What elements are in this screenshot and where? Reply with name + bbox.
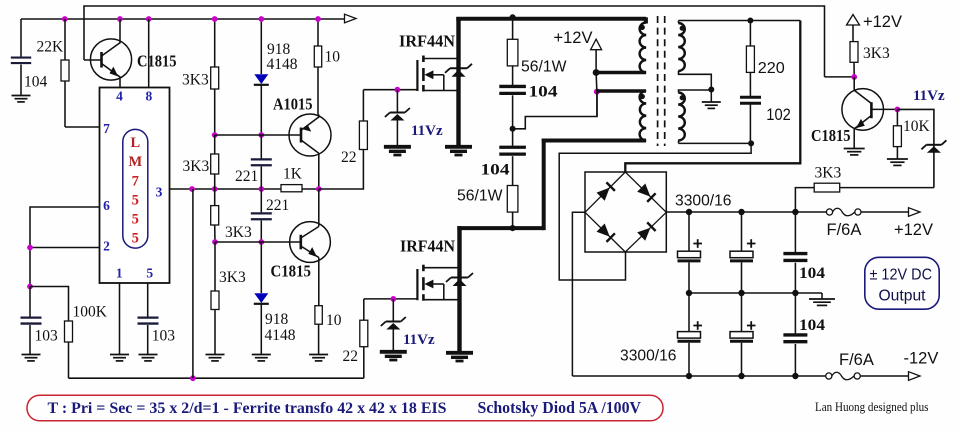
node secondary center tap <box>708 87 714 93</box>
label 22 no.1 <box>341 149 357 166</box>
transistor Q3 C1815 (driver) <box>290 189 331 306</box>
ground M1 source (thick) <box>445 147 472 155</box>
svg-text:4: 4 <box>116 89 123 104</box>
svg-text:3: 3 <box>156 185 163 200</box>
zener 11Vz no.2 (gate M2) <box>380 299 407 360</box>
power symbol +12V center tap <box>591 39 602 50</box>
resistor 3K3 no.2 <box>211 135 219 189</box>
transistor Q2 A1015 (PNP) <box>289 114 331 189</box>
wire center tap to top coil (thick) <box>596 71 646 75</box>
label 1K <box>283 166 303 183</box>
node driver junction <box>316 186 322 192</box>
svg-text:11Vz: 11Vz <box>403 332 435 348</box>
label 56/1W no.1 <box>521 59 567 76</box>
node RC snubber top <box>747 18 753 24</box>
capacitor 3300/16 no.2 <box>730 212 756 293</box>
svg-text:221: 221 <box>235 168 258 185</box>
node diode chain rail <box>258 16 264 22</box>
pin 8 label <box>146 89 153 104</box>
bridge diode upper-left <box>585 172 625 212</box>
wire bottom feedback rail (y=378) <box>69 377 364 379</box>
wire center tap to bottom coil (thick) <box>597 89 646 93</box>
svg-text:7: 7 <box>132 174 139 190</box>
svg-text:T : Pri = Sec = 35 x 2/d=1 - F: T : Pri = Sec = 35 x 2/d=1 - Ferrite tra… <box>48 400 447 417</box>
svg-text:IRF44N: IRF44N <box>400 237 456 256</box>
wire pin3 output (y=189) <box>170 188 282 190</box>
bridge diode lower-left <box>585 212 625 252</box>
svg-text:C1815: C1815 <box>271 262 312 281</box>
transistor Q1 C1815 (top-left) <box>84 19 132 88</box>
capacitor 103 (pin5) <box>138 283 159 361</box>
label C1815 Q3 <box>271 262 312 281</box>
svg-text:1: 1 <box>116 266 123 281</box>
svg-text:C1815: C1815 <box>137 52 177 71</box>
svg-text:3K3: 3K3 <box>225 224 252 241</box>
wire driver to gate M1 <box>319 150 364 190</box>
capacitor 221 no.1 <box>251 135 272 189</box>
diode 918/4148 no.2 <box>252 242 271 361</box>
node 10 res rail <box>315 16 321 22</box>
node base wire Q3 mid <box>258 239 264 245</box>
wire feedback rail (y=6) from C1815 Q1 base to right section <box>84 6 825 77</box>
wire 3K3mid to A1015 base <box>215 134 301 136</box>
svg-text:+12V: +12V <box>863 13 902 31</box>
resistor 1K <box>281 185 319 192</box>
wire -12V output rail <box>572 375 828 377</box>
svg-text:10: 10 <box>326 312 342 329</box>
label 103 pin5 <box>152 328 176 345</box>
label 11Vz no.3 <box>913 88 945 104</box>
node secondary AC2 junction <box>748 140 754 146</box>
transformer primary coil top <box>640 17 647 72</box>
phase dot secondary top <box>680 26 685 31</box>
wire +12V output rail <box>666 211 826 213</box>
output info box <box>865 257 939 309</box>
svg-text:M: M <box>128 154 142 170</box>
resistor 10 no.1 <box>314 19 321 115</box>
label +12V center tap <box>554 29 593 47</box>
wire output 0V rail <box>689 292 822 294</box>
svg-text:100K: 100K <box>73 304 108 321</box>
bridge rectifier box <box>585 172 666 252</box>
wire bottom rail to 22 no.2 <box>363 347 365 379</box>
label A1015 <box>273 95 313 114</box>
resistor 3K3 no.4 <box>206 242 225 361</box>
wire top rail +12V (y=19) with end arrow <box>21 14 356 23</box>
capacitor 3300/16 no.3 <box>678 293 703 376</box>
wire gate M1 <box>363 89 417 91</box>
node out+ cap2 <box>738 209 744 215</box>
wire secondary bottom terminal <box>679 141 752 144</box>
svg-text:221: 221 <box>266 197 289 214</box>
transformer primary coil bottom <box>640 91 647 141</box>
svg-text:4148: 4148 <box>267 56 298 73</box>
pin 2 label <box>103 239 110 254</box>
IC U1 inner stadium with LM7555 <box>123 129 148 248</box>
svg-text:F/6A: F/6A <box>839 351 874 369</box>
wire pin6 pin2 junction to left column <box>30 207 100 287</box>
node base wire Q3 left <box>212 239 218 245</box>
svg-text:5: 5 <box>132 231 139 247</box>
capacitor 104 snubber no.2 <box>499 129 526 186</box>
label 918 no.1 <box>267 41 291 58</box>
svg-text:103: 103 <box>35 328 59 345</box>
label 11Vz no.1 <box>411 123 443 139</box>
svg-text:C1815: C1815 <box>811 126 851 145</box>
wire base Q3 <box>215 241 301 243</box>
svg-text:3K3: 3K3 <box>863 45 890 62</box>
node out+ fb <box>792 209 798 215</box>
label 104 output no.1 <box>799 265 825 282</box>
node gate M1 zener <box>395 87 401 93</box>
label 3K3 no.1 <box>182 72 209 89</box>
label C1815 Q4 <box>811 126 851 145</box>
svg-text:8: 8 <box>146 89 153 104</box>
label 103 left <box>35 328 59 345</box>
resistor 10K <box>887 109 908 165</box>
svg-text:56/1W: 56/1W <box>457 188 503 205</box>
zener drain M1 <box>445 64 472 77</box>
label 3300/16 bottom <box>620 348 677 365</box>
node pin3 left <box>189 186 195 192</box>
node Q4 base <box>895 107 901 113</box>
wire drain rail M2 (thick) <box>457 139 646 352</box>
transformer core <box>658 16 665 146</box>
resistor 10 no.2 <box>309 306 328 361</box>
arrow -12V output <box>909 372 921 381</box>
resistor 56/1W no.1 <box>507 19 518 66</box>
bridge diode lower-right <box>625 212 666 252</box>
resistor 22K <box>61 19 69 127</box>
resistor 3K3 no.3 <box>211 189 219 242</box>
zener drain M2 <box>446 273 473 286</box>
svg-text:3300/16: 3300/16 <box>620 348 677 365</box>
note text schottky <box>478 398 642 417</box>
svg-text:5: 5 <box>146 266 153 281</box>
svg-text:11Vz: 11Vz <box>411 123 443 139</box>
svg-text:104: 104 <box>529 84 558 101</box>
transformer secondary coil top <box>678 23 685 71</box>
phase dot primary top <box>640 25 645 30</box>
node rail 22K <box>62 16 68 22</box>
capacitor 3300/16 no.4 <box>730 293 756 376</box>
label 22 no.2 <box>343 348 359 365</box>
svg-text:-12V: -12V <box>904 350 939 368</box>
svg-text:F/6A: F/6A <box>827 221 862 239</box>
wire pin1 to ground <box>110 283 129 361</box>
svg-text:2: 2 <box>103 239 110 254</box>
node 3K3 mid1 <box>212 132 218 138</box>
label 56/1W no.2 <box>457 188 503 205</box>
capacitor 104 snubber no.1 <box>499 66 526 129</box>
svg-text:3300/16: 3300/16 <box>675 193 732 210</box>
wire 3K3 chain top <box>214 19 216 67</box>
label 3K3 no.5 <box>815 165 842 182</box>
capacitor 104 output no.1 <box>783 212 807 293</box>
label 104 output no.2 <box>799 317 825 334</box>
capacitor 104 (top-left) <box>11 19 31 102</box>
resistor 3K3 no.5 (feedback) <box>795 183 934 212</box>
svg-text:3K3: 3K3 <box>182 72 209 89</box>
svg-text:10: 10 <box>325 49 341 66</box>
label 11Vz no.2 <box>403 332 435 348</box>
svg-text:11Vz: 11Vz <box>913 88 945 104</box>
node gate M2 zener <box>390 296 396 302</box>
label C1815 Q1 <box>137 52 177 71</box>
svg-text:IRF44N: IRF44N <box>399 32 456 51</box>
node out- cap104 <box>792 373 798 379</box>
resistor 100K <box>30 287 73 379</box>
label +12V output <box>894 221 933 239</box>
IC U1 LM7555 box <box>100 88 170 284</box>
pin 6 label <box>103 198 110 213</box>
wire AC2 to bridge bottom <box>559 143 751 280</box>
node pin3 diode chain <box>258 186 264 192</box>
label -12V output <box>904 350 939 368</box>
svg-text:56/1W: 56/1W <box>521 59 567 76</box>
resistor 22 no.1 <box>359 90 367 150</box>
label 3300/16 top <box>675 193 732 210</box>
pin 1 label <box>116 266 123 281</box>
resistor 22 no.2 <box>360 299 368 347</box>
node diode-A1015 wire <box>258 132 264 138</box>
wire rail-y6 to Q4 collector <box>825 76 855 78</box>
ground output 0V <box>809 293 835 305</box>
wire center tap <box>595 50 597 73</box>
label 4148 no.2 <box>265 327 296 344</box>
label F/6A no.1 <box>827 221 862 239</box>
label 104 top-left <box>24 74 48 91</box>
node snubber top <box>509 14 515 20</box>
node 0V cap2 <box>738 290 744 296</box>
wire pin8 to rail <box>148 19 150 88</box>
label 221 no.2 <box>266 197 289 214</box>
wire secondary center tap <box>679 71 712 93</box>
pin 4 label <box>116 89 123 104</box>
arrow +12V output <box>909 208 921 217</box>
label 3K3 no.4 <box>219 269 246 286</box>
wire center tap join <box>595 73 598 117</box>
transformer secondary coil bottom <box>678 93 685 141</box>
pin 7 label <box>103 121 110 136</box>
capacitor 221 no.2 <box>251 189 272 242</box>
wire pin7 stub <box>65 126 100 128</box>
ground secondary center tap <box>702 90 721 109</box>
svg-text:103: 103 <box>152 328 176 345</box>
zener 11Vz no.1 (gate M1) <box>384 90 411 155</box>
svg-text:22: 22 <box>341 149 357 166</box>
node primary center tap top <box>593 69 600 76</box>
wire pin3 down to bottom rail <box>192 189 194 378</box>
resistor 56/1W no.2 <box>507 186 518 229</box>
wire secondary top to bridge top (right loop) <box>625 21 800 173</box>
note text transformer spec <box>48 400 447 417</box>
svg-text:10K: 10K <box>903 118 931 135</box>
label 10 no.2 <box>326 312 342 329</box>
svg-text:918: 918 <box>265 311 289 328</box>
label 3K3 no.2 <box>183 158 210 175</box>
node out- cap4 <box>738 373 744 379</box>
label 918 no.2 <box>265 311 289 328</box>
node 3K3 chain rail <box>212 16 218 22</box>
mosfet M1 IRF44N <box>417 56 458 92</box>
zener 11Vz no.3 (feedback) <box>897 109 946 187</box>
svg-text:5: 5 <box>132 193 139 209</box>
svg-text:104: 104 <box>799 317 825 334</box>
resistor 220 <box>746 21 754 73</box>
capacitor 102 <box>740 72 761 143</box>
node 0V cap1 <box>686 290 692 296</box>
node 0V cap104 <box>792 290 798 296</box>
label 10 no.1 <box>325 49 341 66</box>
node bottom rail to pin3 column <box>190 375 196 381</box>
phase dot secondary bottom <box>680 95 685 100</box>
transistor Q4 C1815 (feedback, mirrored) <box>842 77 898 155</box>
label 104 snubber no.2 <box>481 162 510 179</box>
resistor 3K3 no.1 <box>211 67 219 135</box>
ground M2 source (thick) <box>446 353 473 361</box>
bridge diode upper-right <box>625 172 666 212</box>
node pins 2-6 junction <box>27 245 33 251</box>
label 4148 no.1 <box>267 56 298 73</box>
capacitor 104 output no.2 <box>783 293 807 376</box>
svg-text:Schotsky Diod 5A /100V: Schotsky Diod 5A /100V <box>478 398 642 417</box>
svg-text:102: 102 <box>766 106 791 124</box>
node snubber mid <box>510 126 516 132</box>
label 104 snubber no.1 <box>529 84 558 101</box>
node out- cap3 <box>686 373 692 379</box>
capacitor 3300/16 no.1 <box>678 212 703 293</box>
wire drain rail M1 (thick) <box>456 17 646 145</box>
svg-text:104: 104 <box>799 265 825 282</box>
diode 918/4148 no.1 <box>254 74 269 135</box>
pin 3 label <box>156 185 163 200</box>
svg-text:5: 5 <box>132 212 139 228</box>
capacitor 103 (left) <box>21 287 42 361</box>
label 100K <box>73 304 108 321</box>
label 22K <box>37 39 65 56</box>
wire secondary top terminal <box>679 21 801 24</box>
svg-text:22K: 22K <box>37 39 65 56</box>
label 221 no.1 <box>235 168 258 185</box>
wire snubber mid to center tap <box>513 92 597 129</box>
svg-text:A1015: A1015 <box>273 95 313 114</box>
mosfet M2 IRF44N <box>417 265 459 301</box>
phase dot primary bottom <box>640 94 645 99</box>
node snubber bottom <box>509 225 515 231</box>
fuse F/6A no.2 <box>826 372 908 380</box>
svg-text:Output: Output <box>879 288 927 305</box>
svg-text:3K3: 3K3 <box>815 165 842 182</box>
node rail Q1 collector <box>117 16 123 22</box>
label +12V top right <box>863 13 902 31</box>
resistor 3K3 no.6 <box>850 25 858 77</box>
wire bridge minus to -12V rail <box>572 212 585 376</box>
svg-text:Lan Huong designed plus: Lan Huong designed plus <box>815 399 929 414</box>
node pin3 3K3 chain <box>212 186 218 192</box>
note box (red rounded) <box>27 395 663 421</box>
svg-text:220: 220 <box>758 60 785 77</box>
power symbol +12V right <box>847 15 860 26</box>
label 10K <box>903 118 931 135</box>
svg-text:7: 7 <box>103 121 110 136</box>
note author <box>815 399 929 414</box>
svg-text:3K3: 3K3 <box>183 158 210 175</box>
node rail pin8 <box>146 16 152 22</box>
svg-text:± 12V DC: ± 12V DC <box>870 267 933 284</box>
label 3K3 no.6 <box>863 45 890 62</box>
svg-text:6: 6 <box>103 198 110 213</box>
label 3K3 no.3 <box>225 224 252 241</box>
label IRF44N no.1 <box>399 32 456 51</box>
svg-text:22: 22 <box>343 348 359 365</box>
label F/6A no.2 <box>839 351 874 369</box>
svg-text:+12V: +12V <box>894 221 933 239</box>
svg-text:104: 104 <box>24 74 48 91</box>
svg-text:L: L <box>130 135 140 151</box>
node Q4 collector <box>851 74 857 80</box>
node out+ cap1 <box>686 209 692 215</box>
label IRF44N no.2 <box>400 237 456 256</box>
svg-text:4148: 4148 <box>265 327 296 344</box>
label 220 <box>758 60 785 77</box>
wire diode chain top <box>260 19 262 74</box>
svg-text:3K3: 3K3 <box>219 269 246 286</box>
node left column junction <box>27 284 33 290</box>
svg-text:1K: 1K <box>283 166 303 183</box>
fuse F/6A no.1 <box>826 208 908 216</box>
svg-text:104: 104 <box>481 162 510 179</box>
node primary center tap <box>594 89 600 95</box>
pin 5 label <box>146 266 153 281</box>
svg-text:+12V: +12V <box>554 29 593 47</box>
label 102 <box>766 106 791 124</box>
wire gate M2 <box>364 298 418 300</box>
